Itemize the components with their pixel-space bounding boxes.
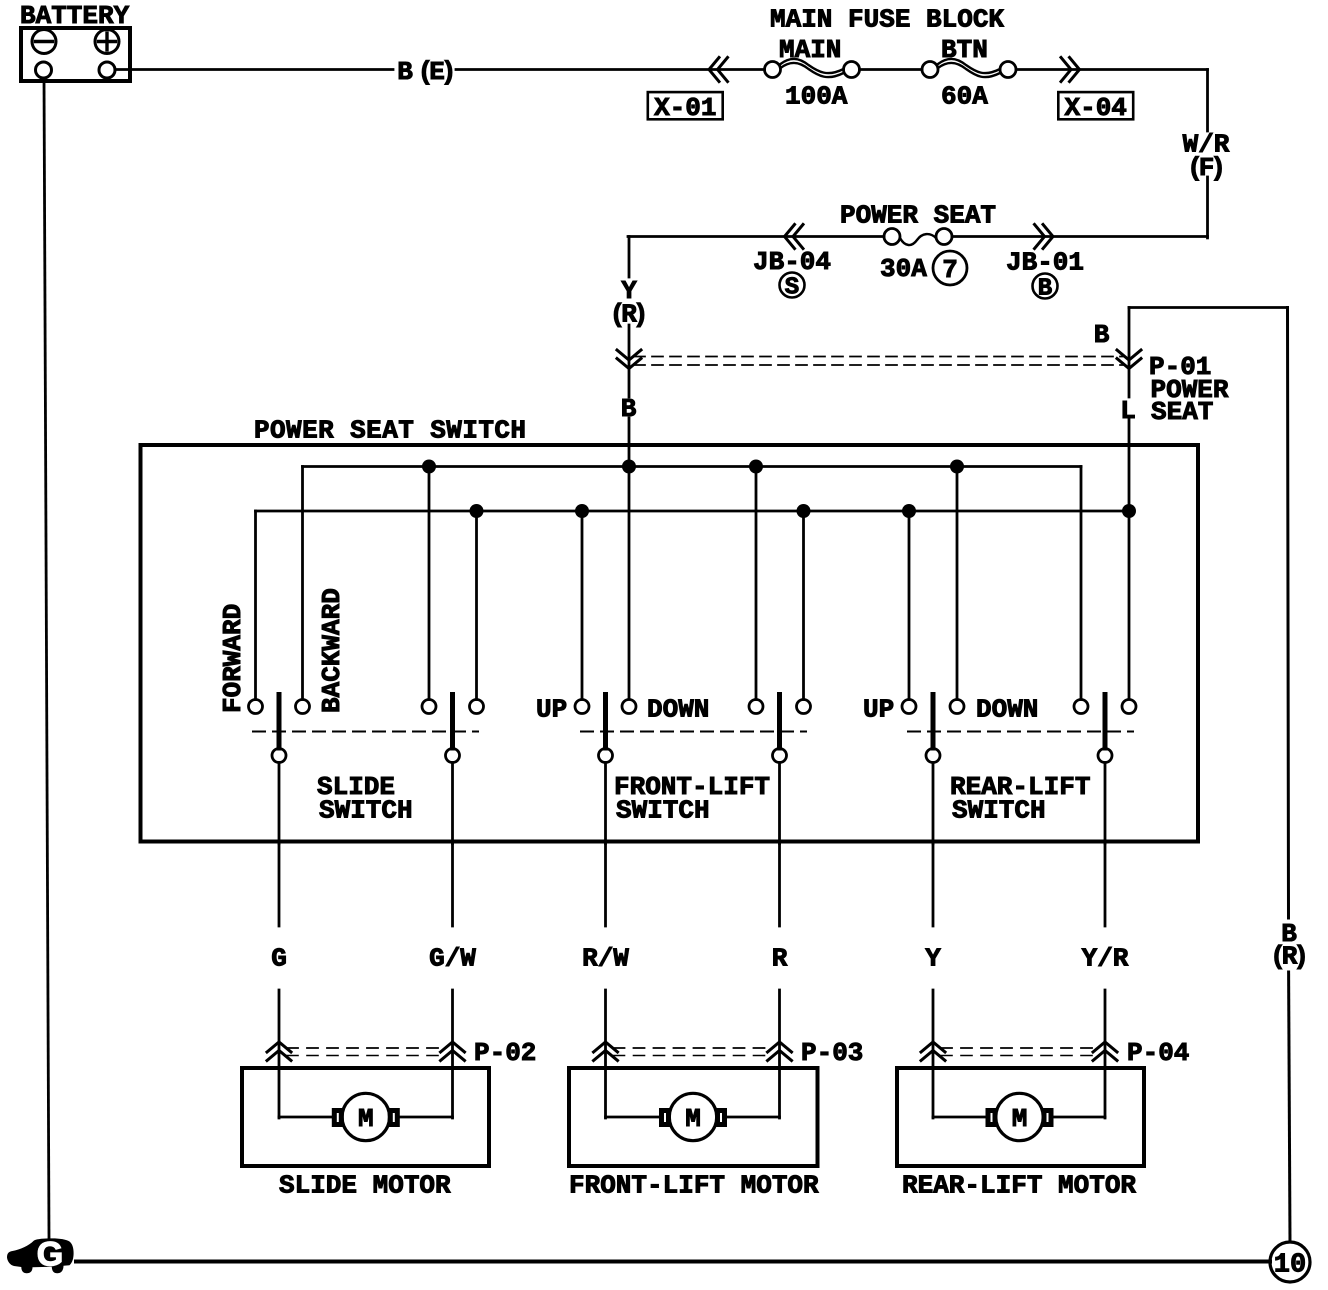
svg-text:X-01: X-01 <box>654 93 716 123</box>
svg-text:B: B <box>397 57 413 87</box>
svg-text:P-03: P-03 <box>801 1038 863 1068</box>
svg-text:): ) <box>633 300 649 330</box>
svg-text:FORWARD: FORWARD <box>218 604 248 713</box>
svg-text:S: S <box>785 275 799 302</box>
svg-text:B: B <box>1094 320 1110 350</box>
svg-text:): ) <box>441 57 457 87</box>
svg-text:BACKWARD: BACKWARD <box>317 588 347 713</box>
svg-text:POWER SEAT: POWER SEAT <box>840 201 996 231</box>
svg-text:SWITCH: SWITCH <box>319 796 413 826</box>
svg-text:DOWN: DOWN <box>976 695 1038 725</box>
svg-text:P-02: P-02 <box>474 1038 536 1068</box>
svg-text:Y/R: Y/R <box>1082 944 1129 974</box>
svg-text:REAR-LIFT MOTOR: REAR-LIFT MOTOR <box>902 1171 1136 1201</box>
svg-text:M: M <box>685 1104 701 1134</box>
svg-text:R: R <box>772 944 788 974</box>
svg-text:10: 10 <box>1274 1251 1306 1281</box>
svg-text:FRONT-LIFT MOTOR: FRONT-LIFT MOTOR <box>569 1171 819 1201</box>
svg-text:X-04: X-04 <box>1064 93 1126 123</box>
svg-text:M: M <box>358 1104 374 1134</box>
svg-text:G/W: G/W <box>429 944 476 974</box>
svg-text:SLIDE MOTOR: SLIDE MOTOR <box>279 1171 451 1201</box>
svg-text:MAIN: MAIN <box>779 35 841 65</box>
svg-text:): ) <box>1293 942 1309 972</box>
svg-text:SEAT: SEAT <box>1151 397 1213 427</box>
svg-text:P-04: P-04 <box>1127 1038 1189 1068</box>
svg-text:G: G <box>271 944 287 974</box>
svg-text:7: 7 <box>942 255 958 285</box>
svg-text:): ) <box>1210 153 1226 183</box>
svg-text:MAIN FUSE BLOCK: MAIN FUSE BLOCK <box>770 5 1004 35</box>
svg-text:M: M <box>1012 1104 1028 1134</box>
svg-text:100A: 100A <box>785 82 848 112</box>
svg-text:Y: Y <box>925 944 941 974</box>
svg-text:30A: 30A <box>880 254 927 284</box>
svg-text:B: B <box>621 394 637 424</box>
svg-text:BTN: BTN <box>941 35 988 65</box>
svg-text:UP: UP <box>536 695 567 725</box>
svg-text:R/W: R/W <box>582 944 629 974</box>
svg-text:DOWN: DOWN <box>647 695 709 725</box>
svg-text:SWITCH: SWITCH <box>952 796 1046 826</box>
svg-text:SWITCH: SWITCH <box>616 796 710 826</box>
svg-text:POWER SEAT SWITCH: POWER SEAT SWITCH <box>254 416 526 446</box>
svg-text:60A: 60A <box>941 82 988 112</box>
svg-text:B: B <box>1038 276 1052 303</box>
svg-text:UP: UP <box>863 695 894 725</box>
svg-text:G: G <box>37 1236 63 1274</box>
